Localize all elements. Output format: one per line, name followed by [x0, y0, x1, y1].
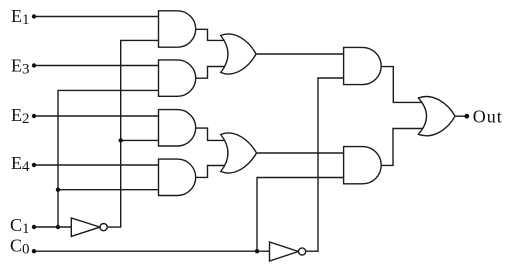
wire E4 input — [34, 164, 160, 166]
node dot Out — [464, 114, 469, 119]
wire A1 output to OR1 top input — [196, 29, 232, 40]
junction C1 branch — [56, 225, 60, 229]
wire B2 output to OR3 bottom input — [381, 129, 429, 166]
wire C0 branch to B2 bottom input — [257, 178, 344, 252]
and-gate A1 — [159, 11, 196, 47]
inverter U1 triangle — [71, 218, 100, 237]
inverter U2 bubble — [299, 248, 306, 255]
svg-text:C1: C1 — [10, 215, 30, 237]
and-gate B1 — [344, 47, 382, 84]
wire C1 vertical to A2 lower input — [58, 90, 160, 227]
and-gate A4 — [159, 159, 196, 195]
wire OR3 output to Out — [455, 115, 467, 117]
wire C1 branch to A4 lower input — [58, 189, 160, 191]
wire A3 output to OR2 top input — [196, 128, 232, 140]
or-gate OR3 — [418, 97, 455, 136]
wire C0 input — [34, 250, 270, 252]
and-gate A3 — [159, 110, 196, 146]
wire inverter U2 output to B1 bottom input — [306, 78, 344, 251]
wire C1 input — [34, 226, 72, 228]
wire E3 input — [34, 65, 160, 67]
or-gate OR2 — [221, 133, 257, 173]
node dot E2 — [32, 114, 36, 118]
node dot E1 — [32, 14, 36, 18]
svg-text:E1: E1 — [11, 6, 30, 28]
node dot E4 — [32, 163, 36, 167]
svg-text:E3: E3 — [11, 56, 30, 78]
wire A4 output to OR2 bottom input — [196, 166, 232, 178]
svg-text:E2: E2 — [11, 105, 30, 127]
inverter U1 bubble — [100, 224, 107, 231]
wire A2 output to OR1 bottom input — [196, 67, 232, 79]
wire U1 output branch to A3 lower input — [121, 139, 160, 141]
inverter U2 triangle — [270, 242, 299, 261]
svg-text:Out: Out — [473, 106, 503, 126]
wire OR1 output to B1 top input — [256, 53, 344, 55]
svg-text:E4: E4 — [11, 153, 30, 175]
and-gate A2 — [159, 60, 196, 96]
junction C0 branch — [255, 249, 259, 253]
wire E2 input — [34, 115, 160, 117]
wire OR2 output to B2 top input — [257, 152, 345, 154]
wire B1 output to OR3 top input — [381, 67, 429, 103]
junction U1-out/A3 branch — [119, 138, 123, 142]
or-gate OR1 — [221, 34, 256, 74]
svg-text:C0: C0 — [10, 236, 30, 258]
node dot C0 — [32, 249, 36, 253]
junction C1/A4 branch — [56, 188, 60, 192]
and-gate B2 — [344, 147, 382, 184]
node dot E3 — [32, 63, 36, 67]
node dot C1 — [32, 225, 36, 229]
wire inverter U1 output to A1 lower input — [107, 40, 160, 227]
wire E1 input — [34, 16, 160, 18]
